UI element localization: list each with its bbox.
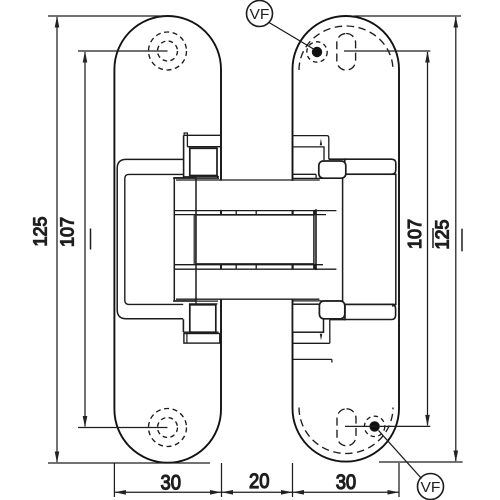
arrow bottom 30-left right <box>210 490 222 495</box>
lower-right arm bottom edge extension <box>330 319 346 321</box>
left plate edge bar junction lower <box>220 264 222 270</box>
bottom dim line <box>114 491 399 493</box>
upper link bar top edge <box>174 210 336 212</box>
hinge mechanism <box>117 133 396 363</box>
arrow left 107 bottom <box>83 416 88 428</box>
svg-text:107: 107 <box>58 217 78 247</box>
lower-right skirt line <box>293 358 332 360</box>
upper bar pin tick B <box>255 211 257 215</box>
svg-text:VF: VF <box>421 479 441 496</box>
hidden cover contour top arc (dashed) <box>299 26 393 70</box>
arrow right 125 top <box>454 16 459 28</box>
upper-left collar right edge stub <box>217 175 219 178</box>
upper-right arm top edge extension <box>329 158 346 160</box>
lower housing joint crossing line <box>176 298 319 300</box>
right reference tick A <box>432 228 434 248</box>
bottom slotted hole (dashed capsule) <box>337 409 356 446</box>
arrow right 107 top <box>425 51 430 63</box>
right arm corner mark (dark wedge) <box>392 303 396 307</box>
slider right edge outer line <box>315 209 317 270</box>
upper-left collar notch <box>184 133 187 135</box>
slider pin junction lower (dark) <box>313 265 317 270</box>
top-left countersunk hole outer circle <box>149 32 187 70</box>
upper bar pin tick A <box>235 211 237 215</box>
upper housing joint line left short <box>173 177 219 179</box>
ext line bottom at x=221.5 <box>221 463 223 497</box>
lower link bar bottom edge <box>174 268 336 270</box>
lower housing joint line left inner <box>189 303 218 305</box>
right hinge body block <box>343 174 396 304</box>
svg-text:VF: VF <box>250 6 270 23</box>
arrow left 107 top <box>83 51 88 63</box>
upper link bar bottom edge <box>174 214 326 216</box>
top-right mounting arm <box>345 159 396 174</box>
arrow left 125 bottom <box>55 452 60 464</box>
left bracket inner contour <box>125 174 183 304</box>
arrow right 125 bottom <box>454 451 459 463</box>
upper housing joint crossing line <box>176 179 320 181</box>
ext line right 107 top <box>344 50 430 52</box>
ext line left 107 top <box>78 50 168 52</box>
ext line left 125 top <box>48 15 168 17</box>
lower-right corner mark (dark wedge) <box>320 334 323 340</box>
upper-left boss base line <box>184 176 219 178</box>
upper-left pin boss (white square) <box>190 148 217 175</box>
lower-right step vertical <box>329 320 331 344</box>
arrow bottom 30-right right <box>388 490 400 495</box>
hidden segment mask right plate edge <box>291 181 295 299</box>
arrow right 107 bottom <box>425 415 430 427</box>
arrow bottom 30-left left <box>114 490 126 495</box>
VF top leader line <box>269 23 314 50</box>
bottom-right mounting arm <box>345 304 396 319</box>
bottom-left countersunk hole outer circle <box>149 409 187 447</box>
lower bar pin tick B <box>255 265 257 269</box>
lower-left step edge <box>182 319 184 332</box>
svg-text:107: 107 <box>405 219 425 249</box>
bottom-left countersunk hole inner circle <box>158 418 178 438</box>
left reference tick <box>90 229 92 250</box>
lower bar pin tick A <box>235 265 237 269</box>
hidden cover contour bottom arc (dashed) <box>299 408 393 454</box>
ext line right 125 top <box>354 15 461 17</box>
frame-side plate (left stadium plate) <box>114 16 221 463</box>
ext line right 107 bottom <box>345 425 430 427</box>
upper-left collar top line <box>184 134 221 136</box>
arrow left 125 top <box>55 16 60 28</box>
svg-text:20: 20 <box>249 469 270 493</box>
lower-right skirt edge <box>331 359 333 362</box>
left bracket outer contour (C-shape) <box>117 159 183 318</box>
ext line left 125 bottom <box>48 462 210 464</box>
left column right edge lower stub <box>195 301 197 304</box>
upper right cover step <box>315 174 317 178</box>
slider pin junction upper (dark) <box>313 210 317 215</box>
lower-left step line <box>183 331 218 333</box>
top-left countersunk hole inner circle <box>158 41 178 61</box>
upper-left collar left edge <box>183 135 185 178</box>
central slider block <box>196 215 314 264</box>
upper-right cover top line <box>292 136 329 160</box>
ext line left 107 bottom <box>78 427 168 429</box>
left plate edge bar junction upper <box>220 210 222 215</box>
arrow bottom 20 left <box>222 490 234 495</box>
upper-left collar inner edge <box>186 135 188 147</box>
arrow bottom 20 right <box>281 490 293 495</box>
lower right cover joint line <box>293 300 346 302</box>
svg-text:125: 125 <box>433 219 453 249</box>
lower housing joint line left short <box>173 300 218 302</box>
VF bottom leader line <box>379 431 422 479</box>
svg-text:30: 30 <box>336 470 357 494</box>
svg-text:125: 125 <box>31 216 51 246</box>
lower link bar top edge <box>174 264 323 266</box>
lower-left foot block <box>184 334 220 344</box>
dim line right 125 <box>455 17 457 461</box>
lower-right pin boss (rounded block) <box>319 301 344 319</box>
VF bottom circle <box>418 474 444 500</box>
upper right cover joint line B <box>292 177 346 179</box>
lower-left pin boss (white square) <box>190 305 216 332</box>
door-side plate (right stadium plate) <box>293 16 400 462</box>
upper-left collar mid line <box>187 146 221 148</box>
svg-text:30: 30 <box>161 471 182 495</box>
dim line left 125 <box>56 17 58 462</box>
right plate edge bar junction lower <box>292 264 294 270</box>
upper-right cover mid line <box>292 147 324 160</box>
VF callout top <box>247 1 444 500</box>
ext line bottom at x=292.5 <box>292 463 294 497</box>
ext line bottom at x=399 <box>398 463 400 497</box>
arrow bottom 30-right left <box>293 490 305 495</box>
lower-right step base line <box>293 342 330 344</box>
dim line right 107 <box>427 52 429 425</box>
top screw pilot circle (dashed) <box>307 42 327 62</box>
top slotted hole (dashed capsule) <box>337 34 356 71</box>
slider left edge inner line <box>193 215 195 264</box>
right reference tick B <box>461 229 463 252</box>
upper-right pin boss (rounded block) <box>319 161 346 178</box>
ext line right 125 bottom <box>379 461 463 463</box>
dim line left 107 <box>84 52 86 427</box>
lower-right cover plate <box>293 304 324 332</box>
bottom screw pilot circle (dashed) <box>364 416 384 436</box>
top screw point VF (filled dot) <box>312 47 322 57</box>
right plate edge bar junction upper <box>292 210 294 215</box>
upper right cover bottom line <box>292 173 317 175</box>
hidden segment mask left plate edge <box>219 181 223 299</box>
lower-left foot inner edge <box>186 334 188 344</box>
VF top circle <box>247 1 273 27</box>
bottom screw point VF (filled dot) <box>369 421 379 431</box>
left guide column (white block between arms) <box>174 178 196 301</box>
upper-right corner mark (dark wedge) <box>320 139 322 146</box>
ext line bottom at x=114.4 <box>113 463 115 497</box>
